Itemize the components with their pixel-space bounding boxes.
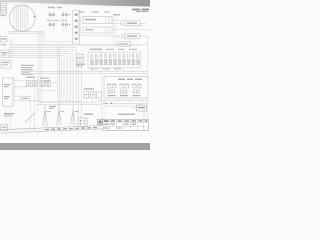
harness bundle H2 xyxy=(57,105,62,126)
junction box JB1 (big right box) xyxy=(104,77,148,99)
label above connector CN1 xyxy=(84,114,93,115)
W1 text xyxy=(1,38,6,39)
nested bus wire 6 xyxy=(9,57,61,104)
harness bundle H1 xyxy=(43,105,48,127)
contact dot K4 xyxy=(69,24,70,25)
bottom rail y103.3 xyxy=(102,102,148,104)
connector CN2 dark pair xyxy=(98,119,103,124)
switch S2 xyxy=(33,81,38,87)
module A2 box xyxy=(83,27,112,33)
main rail wire y71 xyxy=(30,70,148,72)
relay K4 xyxy=(62,24,68,26)
text in box above strip xyxy=(119,43,128,44)
coil L2 xyxy=(91,92,96,98)
B2 contact hatches xyxy=(119,35,124,39)
connector P1 left of strip xyxy=(77,55,84,62)
relay pin wires xyxy=(50,11,67,32)
nested bus wire 3 xyxy=(9,51,70,101)
long rail wire y45.8 xyxy=(12,45,141,47)
wire stubs under top band xyxy=(9,2,145,8)
coil L1 xyxy=(84,92,89,98)
switch S3 label xyxy=(40,78,49,79)
harness bundle H3 xyxy=(71,105,76,126)
contact dot K2 xyxy=(69,14,70,15)
connector J1 ladder (top-left edge) xyxy=(0,2,6,14)
nested bus wire 4 xyxy=(9,53,67,104)
relay module B1 box xyxy=(125,21,140,26)
M1 wires xyxy=(132,108,144,119)
A1 dividers xyxy=(106,17,109,24)
fuse elements row xyxy=(91,54,139,59)
risers right column xyxy=(112,16,150,44)
P1 pins xyxy=(78,57,80,59)
A2 text xyxy=(85,29,93,30)
notes text block xyxy=(21,65,34,75)
fuse drops to rail xyxy=(92,68,138,74)
B1 text xyxy=(127,23,137,24)
wires from E1 xyxy=(14,81,26,89)
M1 text xyxy=(138,107,145,108)
TS1 dividers xyxy=(4,126,99,133)
label left bottom xyxy=(4,113,14,114)
sensor box R1 xyxy=(21,96,30,101)
bottom rail y100 xyxy=(98,99,148,101)
control unit E1 (tall left box) xyxy=(3,78,15,106)
wire to B2 xyxy=(112,36,148,46)
relay center dots row2 xyxy=(50,23,67,26)
E1 inner divider xyxy=(11,78,13,106)
node dot right of G1 xyxy=(34,16,36,18)
switch link wires xyxy=(31,82,58,84)
JB1 relay group 2 xyxy=(120,84,129,94)
nested bus wire 2 xyxy=(9,49,73,104)
nested bus wire 5 xyxy=(9,55,64,101)
small label right column xyxy=(113,14,120,15)
relay K2 xyxy=(62,14,68,16)
collector rail y101 left xyxy=(36,100,80,102)
small box W4 bottom left xyxy=(1,125,8,131)
coil L3 xyxy=(97,92,102,98)
R1 text xyxy=(22,98,28,99)
TS1 stub wires below xyxy=(6,129,94,136)
label above H2 xyxy=(49,106,56,107)
label between relay rows xyxy=(47,20,53,21)
labels under fuse strip xyxy=(90,68,98,69)
left small box W2 xyxy=(1,50,9,57)
relay K3 xyxy=(49,24,55,26)
label near J1 xyxy=(1,15,6,16)
TS1 terminal numbers xyxy=(45,127,97,130)
dashed control line xyxy=(40,102,102,104)
collector rail y104.7 left xyxy=(36,104,102,106)
junction node dots xyxy=(105,103,107,105)
E1 text xyxy=(4,84,10,99)
bus wire 2 under G1 xyxy=(8,33,44,35)
W2 text xyxy=(2,52,8,53)
LT1 column lines xyxy=(110,119,144,130)
scanner edge band top xyxy=(0,0,150,7)
fuse value labels xyxy=(90,60,139,65)
connector CN1 xyxy=(78,118,87,127)
switch S3 xyxy=(40,81,45,87)
scanner edge band bottom xyxy=(0,143,150,150)
relay group label (top-middle) xyxy=(48,7,55,8)
label above module A1 xyxy=(79,11,85,12)
B1 contact hatches xyxy=(121,22,123,26)
fuse strip F1 label xyxy=(90,49,102,50)
A1 text xyxy=(85,19,96,21)
long rail wire y44 xyxy=(8,43,148,45)
left small box W1 xyxy=(0,36,7,42)
P1 pin wires xyxy=(79,52,82,118)
W3 text xyxy=(2,62,9,63)
JB1 header text xyxy=(118,79,125,80)
fuse strip F1 outline xyxy=(88,52,141,68)
JB1 relay group 3 xyxy=(133,84,142,94)
title text STD (top right) xyxy=(132,9,140,11)
terminal strip TS1 top edge xyxy=(0,125,104,129)
relay center dots row1 xyxy=(50,13,67,16)
riser wires from G1 bus xyxy=(38,32,44,105)
main rail wire y73.7 xyxy=(30,73,148,75)
terminal strip TS1 bottom edge xyxy=(0,129,104,133)
mid cluster label xyxy=(84,88,94,89)
E1 drop wires xyxy=(6,106,10,129)
W4 text xyxy=(2,127,7,128)
LT1 row lines xyxy=(103,123,149,127)
rail tie wires xyxy=(108,103,140,106)
bus wire under G1 xyxy=(8,31,44,33)
bottom rail y106 xyxy=(104,105,145,107)
wire under switches xyxy=(36,90,56,92)
box above fuse strip xyxy=(118,42,131,47)
switch S1 xyxy=(27,81,32,87)
wires through G1 xyxy=(14,5,27,32)
nested bus wire 1 xyxy=(9,47,76,101)
page background xyxy=(0,0,150,150)
riser wires left of A1 xyxy=(78,10,81,36)
relay module B2 box xyxy=(125,34,140,39)
X1 pins xyxy=(75,14,78,40)
label under W1 xyxy=(1,44,7,45)
cluster label xyxy=(26,77,35,78)
JB1 output drops xyxy=(106,98,146,103)
connector strip X1 (tall narrow box) xyxy=(73,11,80,45)
P1 label xyxy=(76,64,85,65)
label above legend table xyxy=(118,114,135,115)
B2 text xyxy=(127,36,137,37)
risers from W1 xyxy=(10,38,12,58)
JB1 relay group 1 xyxy=(108,84,117,94)
relay K1 xyxy=(49,14,55,16)
switch S4 xyxy=(46,81,51,87)
A2 dividers xyxy=(106,27,109,33)
wire rail under A2 xyxy=(78,35,113,37)
left small box W3 xyxy=(1,60,11,68)
LT1 cell text xyxy=(104,120,148,122)
sloped wire xyxy=(25,113,35,123)
wire to B1 xyxy=(112,23,146,26)
riser wires left bottom xyxy=(31,76,39,130)
JB1 group dots xyxy=(109,84,140,85)
gauge circle G1 xyxy=(9,5,35,31)
wire from R1 xyxy=(14,96,40,101)
legend table LT1 frame xyxy=(103,119,149,130)
S3 contact dots xyxy=(45,81,46,82)
right edge riser xyxy=(102,46,148,126)
module M1 bottom right xyxy=(137,105,147,111)
coil link wires xyxy=(86,95,104,103)
mid riser wires xyxy=(58,46,60,105)
module A1 box xyxy=(83,17,112,24)
bus wire upper xyxy=(44,40,74,42)
